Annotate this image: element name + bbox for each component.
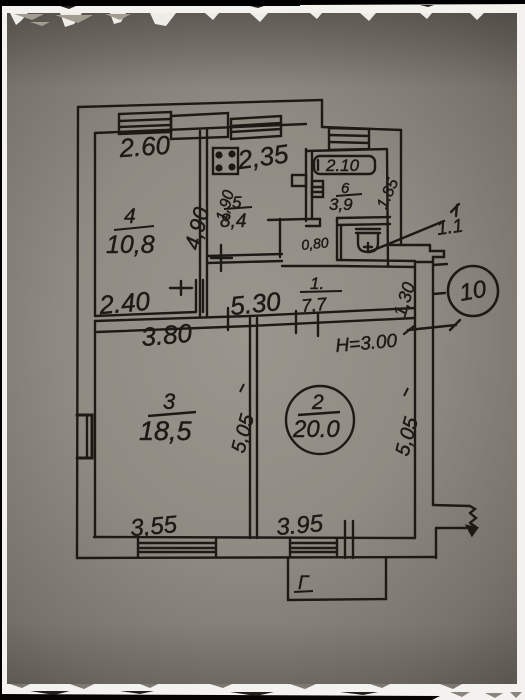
toilet bowl — [356, 229, 380, 252]
svg-text:2.10: 2.10 — [325, 156, 360, 175]
svg-text:4: 4 — [124, 205, 136, 228]
wall: divider rooms 3-2 — [250, 318, 257, 538]
svg-text:Н=3.00: Н=3.00 — [335, 331, 399, 357]
svg-text:4,90: 4,90 — [180, 204, 215, 252]
bottom window B — [290, 538, 337, 556]
wall: bathroom block outer right — [400, 130, 402, 245]
svg-text:5.30: 5.30 — [229, 286, 283, 321]
wall: top inner (kitchen and room5) — [95, 124, 306, 133]
svg-text:2: 2 — [311, 391, 324, 414]
svg-text:7,7: 7,7 — [301, 294, 329, 316]
wall: toilet bottom double — [337, 260, 415, 267]
niche top — [268, 219, 306, 220]
niche vertical — [279, 219, 281, 257]
window top 2 — [231, 116, 281, 139]
wall: bottom inner — [94, 537, 415, 538]
circle room2 — [286, 386, 354, 454]
circle 10 — [448, 266, 498, 316]
step to right wall — [390, 245, 444, 262]
tick above 1.1 — [451, 204, 459, 216]
wall: bathroom block bottom with door gap — [306, 217, 390, 226]
svg-text:3,9: 3,9 — [329, 195, 353, 214]
bathtub — [314, 156, 375, 174]
wall: bathroom block right inner — [387, 150, 388, 266]
svg-text:8,4: 8,4 — [220, 211, 246, 232]
H dim line right — [404, 320, 460, 334]
wall: room5 bottom double — [207, 254, 282, 263]
svg-text:1.: 1. — [310, 274, 324, 293]
svg-text:10,8: 10,8 — [106, 231, 155, 259]
entry door lines and arrow — [433, 505, 477, 558]
wall: toilet left — [337, 226, 341, 260]
wall: kitchen right double — [200, 130, 207, 316]
diagonal leader to 1.1 — [369, 221, 444, 252]
wall: rooms top double — [95, 308, 415, 332]
torn paper texture bottom — [0, 684, 522, 700]
svg-text:1.1: 1.1 — [435, 215, 464, 239]
wall: bathroom block left inner — [311, 152, 313, 219]
svg-text:3: 3 — [163, 389, 176, 414]
corridor dim ticks — [228, 308, 318, 336]
stove symbol — [213, 148, 238, 174]
wall: hall top small — [282, 265, 337, 267]
bathtub inner tick — [317, 160, 319, 170]
wall: bathroom block left outer — [305, 149, 307, 221]
wall: kitchen bottom inner — [95, 312, 196, 316]
svg-text:3,55: 3,55 — [129, 511, 179, 542]
svg-text:5,05: 5,05 — [228, 411, 260, 455]
kitchen door jambs — [196, 280, 203, 312]
wall: bathroom block inner top — [306, 149, 387, 151]
left wall window — [77, 415, 92, 458]
right wall ticks — [433, 264, 447, 294]
svg-text:18,5: 18,5 — [139, 416, 193, 446]
svg-text:3.80: 3.80 — [140, 318, 194, 352]
wall: left outer — [77, 107, 78, 558]
wall: kitchen inner left — [94, 133, 96, 316]
wall: step down to bathroom block — [321, 100, 323, 127]
wall: top outer — [78, 100, 322, 107]
cross ticks near niche — [211, 245, 232, 271]
torn paper texture top — [10, 4, 525, 27]
window top 1 — [119, 112, 171, 134]
balcony door jambs — [345, 521, 353, 558]
svg-text:2,35: 2,35 — [235, 138, 291, 175]
wall: right double — [415, 262, 433, 538]
svg-text:2.60: 2.60 — [117, 130, 171, 164]
balcony outline — [288, 558, 386, 600]
svg-text:5,05: 5,05 — [392, 414, 424, 458]
bathroom window — [329, 128, 369, 150]
svg-text:1.85: 1.85 — [374, 176, 402, 211]
bottom window A — [138, 538, 216, 557]
washbasin in bathroom — [312, 181, 323, 197]
svg-text:20.0: 20.0 — [292, 416, 340, 443]
wall: room3 inner left — [94, 321, 96, 537]
blocked opening box top — [171, 113, 228, 139]
svg-text:0,80: 0,80 — [301, 234, 330, 253]
sink duct box — [292, 175, 306, 186]
wall: bathroom block outer top — [322, 127, 401, 130]
svg-text:3.95: 3.95 — [275, 510, 325, 541]
svg-text:10: 10 — [457, 276, 489, 307]
cross tick at 2.40 end — [170, 281, 192, 295]
svg-text:2.40: 2.40 — [97, 286, 152, 320]
wall: bottom outer — [77, 557, 436, 558]
